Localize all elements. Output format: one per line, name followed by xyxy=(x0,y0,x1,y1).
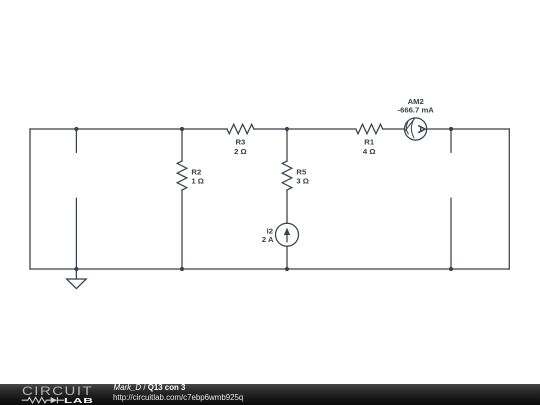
resistor R1 xyxy=(356,124,383,134)
wire AM2 to right corner xyxy=(427,128,510,130)
junction node bottom C xyxy=(285,267,289,271)
wire stub left upper xyxy=(75,129,77,152)
svg-text:R1: R1 xyxy=(364,137,375,146)
junction node top A xyxy=(74,127,78,131)
junction node top D xyxy=(449,127,453,131)
ammeter AM2 xyxy=(405,118,427,140)
resistor R3 xyxy=(227,124,254,134)
svg-text:3 Ω: 3 Ω xyxy=(296,177,309,186)
junction node bottom D xyxy=(449,267,453,271)
wire left vertical xyxy=(29,129,31,269)
wire top segment mid xyxy=(254,128,356,130)
junction node bottom B xyxy=(180,267,184,271)
wire I2 to bottom xyxy=(286,246,288,269)
wire stub left lower xyxy=(75,198,77,269)
logo CIRCUIT text xyxy=(22,387,93,397)
junction node top C xyxy=(285,127,289,131)
ground xyxy=(67,269,87,289)
footer bar xyxy=(0,384,540,405)
wire right vertical xyxy=(508,129,510,269)
svg-text:2 Ω: 2 Ω xyxy=(234,147,247,156)
svg-text:R3: R3 xyxy=(235,137,245,146)
logo resistor-diode-wire xyxy=(18,394,88,405)
wire stub right lower xyxy=(450,198,452,269)
svg-text:2 A: 2 A xyxy=(262,235,274,244)
resistor R5 xyxy=(282,129,292,223)
junction node top B xyxy=(180,127,184,131)
footer url line xyxy=(113,393,243,403)
svg-text:R5: R5 xyxy=(296,167,307,176)
wire top segment left xyxy=(30,128,227,130)
svg-text:-666.7 mA: -666.7 mA xyxy=(398,106,435,115)
wire bottom xyxy=(30,268,509,270)
wire stub right upper xyxy=(450,129,452,152)
current source I2 xyxy=(276,223,299,246)
resistor R2 xyxy=(177,129,187,269)
svg-text:4 Ω: 4 Ω xyxy=(363,147,376,156)
footer title line xyxy=(114,383,186,393)
svg-text:1 Ω: 1 Ω xyxy=(191,177,204,186)
svg-text:R2: R2 xyxy=(191,167,201,176)
wire R1 to AM2 xyxy=(383,128,405,130)
logo LAB text xyxy=(64,397,94,404)
junction node bottom A xyxy=(74,267,78,271)
